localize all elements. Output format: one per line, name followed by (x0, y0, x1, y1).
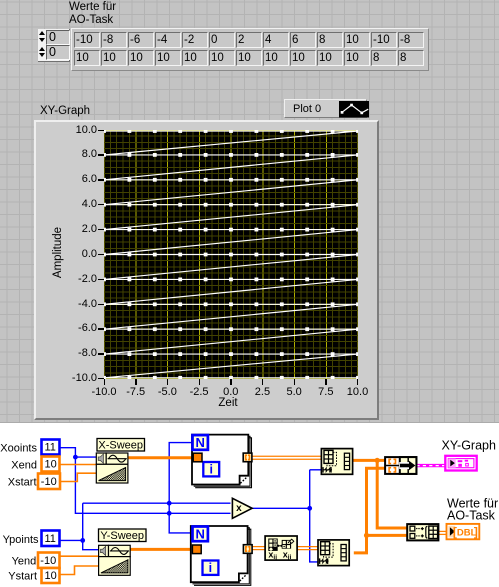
svg-text:N: N (196, 527, 205, 542)
svg-text:AO-Task: AO-Task (447, 509, 496, 523)
svg-text:]: ] (474, 525, 478, 539)
svg-text:N: N (196, 435, 205, 450)
svg-text:Ypoints: Ypoints (3, 534, 39, 546)
svg-text:Xstart: Xstart (8, 477, 37, 489)
svg-text:Xend: Xend (11, 460, 37, 472)
svg-text:Ystart: Ystart (8, 571, 37, 583)
svg-text:ji: ji (287, 554, 292, 561)
svg-text:-10: -10 (41, 476, 57, 488)
svg-text:ij: ij (273, 554, 277, 561)
svg-text:Y-Sweep: Y-Sweep (100, 530, 144, 542)
svg-text:i: i (209, 463, 212, 477)
svg-text:i: i (209, 561, 212, 575)
svg-text:-10: -10 (40, 555, 56, 567)
svg-text:XY-Graph: XY-Graph (442, 439, 496, 453)
svg-text:Xooints: Xooints (0, 443, 37, 455)
svg-text:11: 11 (45, 442, 56, 454)
svg-text:X-Sweep: X-Sweep (98, 440, 143, 452)
svg-text:x: x (236, 503, 242, 514)
svg-text:10: 10 (45, 459, 57, 471)
svg-text:10: 10 (45, 570, 57, 582)
svg-text:11: 11 (45, 533, 56, 545)
svg-text:Yend: Yend (12, 556, 37, 568)
